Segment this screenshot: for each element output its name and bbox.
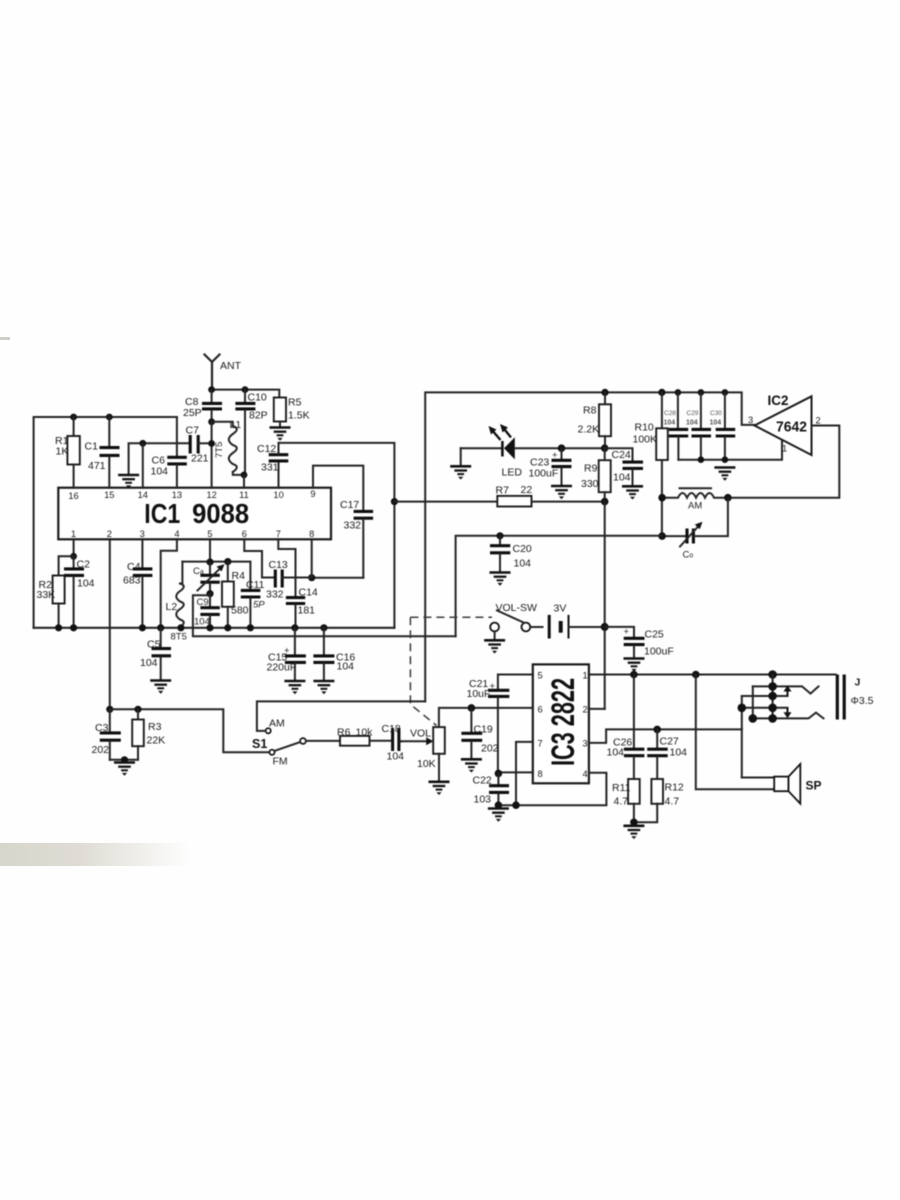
svg-text:Ca: Ca bbox=[193, 566, 204, 577]
svg-text:104: 104 bbox=[686, 420, 698, 427]
wire pin7 to ground rail bbox=[516, 742, 533, 805]
ground at pin14 line bbox=[118, 475, 139, 488]
ground under VOL-SW bbox=[494, 631, 496, 639]
svg-text:C25: C25 bbox=[645, 629, 664, 641]
paper shadow band bottom-left bbox=[0, 843, 200, 866]
svg-text:104: 104 bbox=[664, 420, 676, 427]
node C1 top bbox=[106, 414, 113, 421]
ground under VOL bbox=[429, 782, 450, 795]
jack contact nodes bbox=[768, 682, 777, 691]
wire IC2 output bbox=[728, 426, 839, 498]
ground left of LED bbox=[460, 448, 462, 466]
inductor L2 bbox=[166, 562, 184, 628]
bus junction nodes bbox=[55, 624, 62, 631]
svg-text:22: 22 bbox=[521, 484, 533, 496]
node C29 top bbox=[698, 389, 705, 396]
svg-text:16: 16 bbox=[68, 491, 78, 501]
svg-text:332: 332 bbox=[266, 589, 284, 601]
svg-text:104: 104 bbox=[151, 466, 169, 478]
svg-text:8: 8 bbox=[538, 769, 543, 779]
svg-text:C9: C9 bbox=[197, 597, 209, 608]
node OUT1/speaker branch bbox=[692, 671, 700, 679]
svg-text:100uF: 100uF bbox=[644, 646, 674, 658]
svg-text:C4: C4 bbox=[127, 561, 141, 573]
capacitor C20 bbox=[490, 536, 532, 572]
svg-text:104: 104 bbox=[140, 657, 158, 669]
svg-text:C29: C29 bbox=[687, 410, 699, 417]
node Ca/C9 junction bbox=[206, 590, 213, 597]
svg-text:1: 1 bbox=[782, 444, 787, 454]
svg-text:7642: 7642 bbox=[776, 419, 807, 436]
ground under C3/R3 bbox=[114, 763, 135, 776]
svg-text:IC3 2822: IC3 2822 bbox=[545, 678, 581, 766]
svg-text:3V: 3V bbox=[554, 603, 567, 615]
svg-text:IC1: IC1 bbox=[144, 498, 180, 529]
svg-text:7: 7 bbox=[538, 739, 543, 749]
capacitor C27 bbox=[647, 729, 687, 779]
svg-text:10K: 10K bbox=[417, 758, 436, 770]
resistor R9 bbox=[581, 448, 611, 501]
IC1 9088 bbox=[58, 488, 331, 540]
resistor R2 bbox=[37, 556, 74, 628]
svg-text:5P: 5P bbox=[253, 600, 265, 611]
svg-text:LED: LED bbox=[502, 467, 523, 479]
node R8/R9/C24 bbox=[601, 444, 609, 452]
ground under R5 bbox=[270, 428, 291, 441]
capacitor C28 bbox=[664, 392, 689, 459]
resistor R5 bbox=[274, 397, 310, 428]
svg-text:181: 181 bbox=[298, 605, 316, 617]
svg-text:C10: C10 bbox=[248, 392, 267, 404]
svg-text:C14: C14 bbox=[299, 587, 318, 599]
svg-text:2: 2 bbox=[816, 416, 821, 426]
svg-text:C20: C20 bbox=[513, 543, 532, 555]
wire pin4 loop to ground rail bbox=[498, 773, 606, 805]
svg-text:R10: R10 bbox=[635, 422, 654, 434]
svg-text:C22: C22 bbox=[473, 775, 492, 787]
node L1 bottom / C10 / pin11 bbox=[241, 472, 248, 479]
ground under C20 bbox=[490, 573, 511, 586]
ground under R11/R12 bbox=[623, 826, 644, 839]
capacitor C1 bbox=[85, 417, 120, 488]
svg-text:331: 331 bbox=[261, 462, 279, 474]
svg-text:471: 471 bbox=[88, 460, 106, 472]
svg-text:100K: 100K bbox=[633, 434, 658, 446]
svg-text:3: 3 bbox=[140, 529, 145, 539]
svg-text:104: 104 bbox=[77, 578, 95, 590]
potentiometer VOL 10K bbox=[401, 727, 445, 781]
svg-text:C28: C28 bbox=[664, 410, 676, 417]
svg-text:SP: SP bbox=[806, 779, 822, 793]
capacitor C14 bbox=[286, 587, 318, 628]
capacitor C23 electrolytic bbox=[529, 448, 572, 485]
resistor R7 bbox=[394, 484, 604, 507]
resistor R8 bbox=[578, 392, 612, 448]
wire OUT1 pin1 rail bbox=[589, 674, 836, 676]
svg-text:5: 5 bbox=[207, 529, 212, 539]
svg-text:3: 3 bbox=[583, 739, 588, 749]
svg-text:104: 104 bbox=[337, 661, 355, 673]
svg-text:10uF: 10uF bbox=[467, 688, 491, 700]
ground under C15 bbox=[284, 681, 305, 694]
svg-text:104: 104 bbox=[710, 420, 722, 427]
svg-text:C2: C2 bbox=[77, 559, 91, 571]
svg-text:R3: R3 bbox=[148, 721, 162, 733]
ground under C5 bbox=[150, 681, 171, 694]
node pin5 bbox=[206, 558, 213, 565]
svg-text:104: 104 bbox=[387, 751, 405, 763]
wire top bus FM/AM supply bbox=[425, 392, 754, 701]
svg-text:C3: C3 bbox=[95, 722, 109, 734]
svg-text:R6: R6 bbox=[337, 727, 351, 739]
node R1 top bbox=[70, 414, 77, 421]
wire antenna rail bbox=[212, 390, 280, 398]
capacitor C29 bbox=[686, 392, 711, 459]
wire C20 line bbox=[456, 536, 662, 637]
capacitor C9 bbox=[194, 594, 220, 628]
svg-text:9: 9 bbox=[310, 489, 315, 499]
svg-text:+: + bbox=[624, 627, 630, 638]
capacitor C19 bbox=[461, 708, 498, 759]
svg-text:+: + bbox=[552, 450, 558, 461]
svg-text:220uF: 220uF bbox=[267, 662, 297, 674]
node C27 top bbox=[653, 726, 661, 734]
svg-text:9088: 9088 bbox=[192, 498, 249, 529]
jack J body bbox=[836, 675, 874, 720]
ground under C24 bbox=[622, 486, 643, 499]
wire C3/R3 bottom rail bbox=[110, 759, 138, 761]
svg-text:C24: C24 bbox=[612, 449, 631, 461]
svg-text:13: 13 bbox=[172, 490, 182, 500]
svg-text:8T5: 8T5 bbox=[171, 632, 187, 643]
svg-text:C18: C18 bbox=[382, 723, 401, 735]
svg-text:IC2: IC2 bbox=[768, 392, 789, 408]
node C8 bottom / L1 top bbox=[208, 418, 215, 425]
resistor R10 bbox=[633, 392, 668, 536]
capacitor C10 bbox=[235, 390, 267, 475]
wire pin8 to C21/C22 bbox=[498, 771, 532, 773]
node AM coil right bbox=[724, 494, 732, 502]
wire supply column down to battery bbox=[604, 502, 606, 709]
svg-text:202: 202 bbox=[92, 744, 110, 756]
capacitor C30 bbox=[710, 392, 736, 459]
svg-text:L1: L1 bbox=[230, 419, 242, 431]
variable capacitor Ca (FM tuning) bbox=[193, 562, 225, 594]
svg-text:33K: 33K bbox=[37, 589, 56, 601]
capacitor C5 bbox=[140, 628, 171, 680]
capacitor C2 bbox=[64, 556, 95, 628]
node C19 top bbox=[468, 704, 476, 712]
svg-text:R11: R11 bbox=[612, 782, 631, 794]
phone jack J contacts bbox=[742, 675, 824, 778]
wire pin8 stub bbox=[311, 539, 313, 577]
node pin12 / C7 bbox=[208, 440, 215, 447]
node C20 top bbox=[496, 532, 503, 539]
switch VOL-SW bbox=[490, 602, 537, 631]
inductor L1 bbox=[212, 419, 242, 475]
resistor R11 bbox=[612, 779, 640, 822]
inductor AM antenna coil bbox=[662, 488, 728, 511]
speaker SP bbox=[696, 675, 822, 804]
node R3 top bbox=[134, 706, 141, 713]
svg-text:R7: R7 bbox=[496, 485, 510, 497]
gang box outline around C9 bbox=[193, 595, 456, 636]
svg-text:4.7: 4.7 bbox=[614, 796, 629, 808]
svg-text:2: 2 bbox=[107, 529, 112, 539]
svg-text:FM: FM bbox=[273, 756, 288, 768]
svg-text:C13: C13 bbox=[269, 559, 288, 571]
capacitor C11 bbox=[241, 579, 265, 628]
capacitor C26 bbox=[607, 675, 645, 780]
node C22 bottom bbox=[495, 801, 503, 809]
wire AFC C12 to right vertical bbox=[279, 443, 395, 628]
svg-text:10k: 10k bbox=[356, 727, 374, 739]
wire OUT2 pin3 bbox=[589, 729, 742, 743]
wire pin4 jog bbox=[161, 539, 177, 628]
IC3 2822 bbox=[533, 664, 589, 783]
svg-text:R9: R9 bbox=[584, 463, 598, 475]
node AM/Co bottom left bbox=[658, 532, 666, 540]
svg-text:AM: AM bbox=[269, 718, 285, 730]
svg-text:VOL-SW: VOL-SW bbox=[496, 602, 538, 614]
svg-text:104: 104 bbox=[613, 472, 631, 484]
wire AM contact to supply bbox=[257, 701, 425, 731]
svg-text:6: 6 bbox=[242, 529, 247, 539]
node ant-C8 bbox=[208, 386, 215, 393]
capacitor C18 bbox=[382, 723, 405, 763]
antenna ANT bbox=[205, 355, 242, 391]
node R4 top bbox=[224, 558, 231, 565]
node R9/R7 bbox=[601, 498, 609, 506]
node OUT1/C26 bbox=[630, 671, 638, 679]
node pin8 / C13 / C17 bbox=[308, 574, 315, 581]
wire pin14 AGC line with ground bbox=[129, 443, 190, 474]
svg-text:R5: R5 bbox=[288, 397, 302, 409]
node C30 top bbox=[722, 389, 729, 396]
svg-text:221: 221 bbox=[191, 453, 209, 465]
capacitor C25 electrolytic bbox=[605, 627, 674, 659]
svg-text:1: 1 bbox=[583, 671, 588, 681]
resistor R12 bbox=[634, 779, 684, 822]
svg-text:330: 330 bbox=[581, 478, 599, 490]
svg-text:Φ3.5: Φ3.5 bbox=[851, 695, 874, 707]
svg-text:104: 104 bbox=[514, 558, 532, 570]
wire C17 bottom to pin8 node bbox=[312, 577, 364, 579]
node AFC/R7 bbox=[391, 498, 398, 505]
capacitor C13 bbox=[266, 559, 312, 601]
svg-text:R12: R12 bbox=[665, 782, 684, 794]
svg-text:103: 103 bbox=[474, 794, 492, 806]
svg-text:1K: 1K bbox=[56, 446, 69, 458]
svg-text:C19: C19 bbox=[474, 724, 493, 736]
svg-text:5: 5 bbox=[538, 671, 543, 681]
svg-text:104: 104 bbox=[670, 747, 688, 759]
capacitor C21 electrolytic input bbox=[467, 675, 533, 774]
svg-text:580: 580 bbox=[231, 605, 249, 617]
resistor R6 bbox=[306, 727, 392, 746]
op-amp IC2 7642 bbox=[748, 392, 821, 455]
capacitor C7 bbox=[186, 425, 212, 465]
wire node to pin11 bbox=[243, 475, 245, 488]
wire pin5 node rail bbox=[209, 539, 211, 562]
svg-text:C7: C7 bbox=[186, 425, 200, 437]
node battery / supply bbox=[601, 623, 609, 631]
wire C8 node to pin12 bbox=[211, 422, 213, 488]
resistor R4 bbox=[222, 562, 249, 628]
svg-text:10: 10 bbox=[273, 490, 283, 500]
svg-text:4: 4 bbox=[583, 769, 588, 779]
node pin7 rail bbox=[512, 801, 520, 809]
svg-text:3: 3 bbox=[748, 415, 753, 425]
svg-text:7T5: 7T5 bbox=[214, 442, 225, 458]
dashed gang linkage VOL bbox=[410, 616, 492, 618]
svg-text:C11: C11 bbox=[246, 579, 265, 591]
svg-text:C17: C17 bbox=[340, 499, 359, 511]
wire pin2 stub to supply bbox=[589, 708, 605, 710]
svg-text:1.5K: 1.5K bbox=[288, 410, 310, 422]
node R8 top bbox=[601, 389, 608, 396]
wire pin1 node bbox=[73, 539, 75, 556]
svg-text:332: 332 bbox=[344, 520, 362, 532]
wire C3/R3 node from pin2 bbox=[106, 706, 113, 713]
svg-text:C1: C1 bbox=[85, 441, 99, 453]
ground under C19 bbox=[461, 759, 482, 772]
capacitor C24 bbox=[605, 448, 643, 486]
svg-text:6: 6 bbox=[538, 705, 543, 715]
wire pin14 stub bbox=[142, 443, 144, 487]
svg-text:11: 11 bbox=[239, 490, 249, 500]
svg-text:C12: C12 bbox=[257, 443, 276, 455]
svg-text:2: 2 bbox=[583, 705, 588, 715]
capacitor C17 bbox=[340, 499, 373, 578]
wire pin6 jog to C13 bbox=[244, 539, 274, 577]
wire top-left rail bbox=[34, 417, 177, 628]
svg-text:S1: S1 bbox=[252, 737, 267, 751]
svg-text:683: 683 bbox=[123, 575, 141, 587]
wire pin6 to volume bbox=[439, 708, 533, 727]
capacitor C3 bbox=[92, 709, 121, 760]
node C21/C22/pin8 bbox=[495, 770, 503, 778]
resistor R3 bbox=[132, 709, 165, 760]
capacitor C4 (on pin3 line) bbox=[123, 539, 152, 628]
svg-text:L2: L2 bbox=[166, 601, 178, 613]
wire cap bottom rail to IC2 pin1 bbox=[678, 441, 782, 460]
wire pin9 to C17 bbox=[313, 466, 363, 510]
svg-text:Co: Co bbox=[683, 550, 694, 561]
node C28 top bbox=[675, 389, 682, 396]
svg-text:VOL: VOL bbox=[410, 728, 431, 740]
svg-text:82P: 82P bbox=[249, 410, 268, 422]
ground under C22 bbox=[488, 809, 509, 822]
svg-text:7: 7 bbox=[276, 529, 281, 539]
svg-text:22K: 22K bbox=[147, 735, 166, 747]
svg-text:J: J bbox=[855, 677, 861, 689]
node ant-C10 bbox=[242, 386, 249, 393]
capacitor C6 (on pin13 line) bbox=[151, 417, 187, 488]
svg-text:12: 12 bbox=[207, 490, 217, 500]
svg-text:4: 4 bbox=[174, 529, 179, 539]
node OUT1/jack bbox=[768, 670, 777, 679]
svg-text:25P: 25P bbox=[183, 407, 202, 419]
svg-text:4.7: 4.7 bbox=[665, 796, 680, 808]
ground under C16 bbox=[313, 681, 334, 694]
capacitor C16 bbox=[313, 628, 355, 681]
ground under C25 bbox=[624, 659, 645, 672]
svg-text:ANT: ANT bbox=[220, 360, 242, 372]
wire pin7 jog to C14 bbox=[278, 539, 295, 596]
variable capacitor Co (AM tuning) bbox=[662, 498, 728, 561]
svg-text:C30: C30 bbox=[710, 410, 722, 417]
node R10 top bbox=[658, 389, 665, 396]
capacitor C22 bbox=[473, 773, 510, 805]
svg-text:202: 202 bbox=[481, 743, 499, 755]
svg-text:100uF: 100uF bbox=[529, 468, 559, 480]
battery 3V bbox=[530, 603, 604, 639]
capacitor C12 with AFC wire bbox=[257, 443, 288, 488]
svg-text:R4: R4 bbox=[232, 570, 246, 582]
capacitor C8 bbox=[183, 390, 222, 422]
LED indicator bbox=[461, 424, 605, 479]
ground bus bbox=[34, 627, 395, 629]
resistor R1 bbox=[55, 417, 80, 488]
svg-text:C5: C5 bbox=[147, 639, 161, 651]
svg-text:15: 15 bbox=[104, 490, 114, 500]
svg-text:2.2K: 2.2K bbox=[578, 424, 600, 436]
ground under C23 bbox=[551, 486, 572, 499]
svg-text:1: 1 bbox=[71, 529, 76, 539]
ground on cap rail bbox=[714, 468, 735, 481]
node AM coil left bbox=[658, 494, 666, 502]
wire pin2 long vertical bbox=[109, 539, 111, 709]
node LED / C23 bbox=[558, 444, 566, 452]
svg-text:8: 8 bbox=[309, 529, 314, 539]
svg-text:AM: AM bbox=[688, 501, 702, 512]
svg-text:R8: R8 bbox=[583, 405, 597, 417]
capacitor C15 electrolytic bbox=[267, 628, 306, 681]
switch S1 band select bbox=[252, 718, 306, 768]
node R11/R12 ground bbox=[630, 819, 638, 827]
svg-text:104: 104 bbox=[607, 747, 625, 759]
svg-text:14: 14 bbox=[138, 490, 148, 500]
node pin14 bbox=[139, 440, 146, 447]
